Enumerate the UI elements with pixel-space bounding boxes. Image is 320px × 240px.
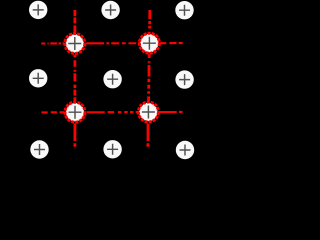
dashed vertical line right (through highlighted ions): [148, 10, 150, 147]
dashed vertical line left (through highlighted ions): [74, 10, 77, 147]
ion row3 col3: [176, 141, 194, 159]
ion row3 col1: [30, 140, 48, 158]
ion row2 col2: [103, 70, 121, 88]
ion row1 col2: [101, 1, 119, 19]
ion row3 col2: [103, 140, 121, 158]
highlighted ion bottom-left with red dashed ring: [65, 102, 85, 122]
dashed horizontal line top (through highlighted ions): [41, 42, 182, 45]
ion row2 col1: [29, 69, 47, 87]
ion row1 col3: [175, 1, 193, 19]
highlighted ion bottom-right with red dashed ring: [138, 102, 158, 122]
ion row2 col3: [175, 70, 193, 88]
highlighted ion top-right with red dashed ring: [139, 33, 159, 53]
ion row1 col1: [29, 1, 47, 19]
highlighted ion top-left with red dashed ring: [65, 34, 85, 54]
dashed horizontal line bottom (through highlighted ions): [42, 111, 183, 114]
